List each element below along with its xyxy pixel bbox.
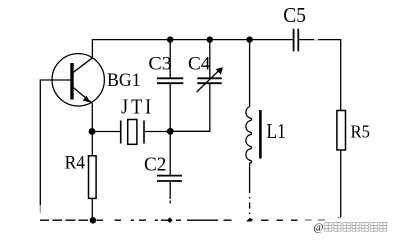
capacitor C5 [294, 29, 299, 52]
wire top rail right of C5 down to R5 [299, 40, 341, 111]
junction node crystal/C3/C4/C2 [167, 128, 174, 135]
wire node down to C2 [169, 132, 171, 176]
wire junction to crystal [92, 131, 120, 133]
resistor R5 [337, 111, 346, 151]
capacitor C3 [157, 78, 183, 83]
wire C4 branch from top rail [209, 40, 211, 78]
svg-text:R4: R4 [65, 152, 86, 173]
junction node at C3 branch [167, 36, 173, 42]
junction node emitter/R4/crystal [89, 128, 96, 135]
resistor R4 [89, 156, 97, 199]
chassis line faint right end [305, 219, 325, 221]
svg-text:C5: C5 [283, 3, 306, 27]
svg-text:BG1: BG1 [107, 70, 141, 91]
wire collector lead to top rail [91, 40, 93, 58]
svg-text:@: @ [314, 222, 324, 234]
transistor BG1 [52, 54, 104, 106]
wire C3 branch from top rail [169, 40, 171, 78]
wire emitter lead down [91, 103, 93, 131]
wire R5 bottom lead [340, 150, 342, 217]
wire C2 bottom lead [169, 181, 171, 199]
svg-text:R5: R5 [351, 122, 371, 142]
crystal JTI [121, 120, 144, 145]
wire L1 bottom lead [249, 163, 251, 187]
junction node at L1 branch [246, 36, 252, 42]
svg-text:C3: C3 [148, 55, 171, 75]
svg-text:C2: C2 [144, 153, 166, 175]
junction node R4 at chassis [90, 217, 97, 224]
svg-text:JTI: JTI [121, 94, 154, 118]
wire base lead and left rail [40, 80, 70, 205]
inductor L1 core bar [259, 110, 262, 159]
wire R4 top lead [91, 132, 93, 156]
svg-text:L1: L1 [267, 119, 286, 143]
wire L1 dash-dot lead to chassis [249, 187, 251, 219]
wire L1 branch from top rail [249, 40, 251, 107]
wire C4 bottom to node [170, 84, 210, 132]
inductor L1 coil [246, 107, 252, 163]
capacitor C4 (variable) [197, 67, 223, 92]
svg-text:C4: C4 [188, 55, 210, 75]
wire R4 bottom lead [91, 198, 93, 220]
chassis dash-dot ground line [40, 219, 298, 221]
wire C2 dashed stub [169, 201, 171, 204]
wire top rail faint artifact segment [314, 39, 318, 41]
junction node C2 at chassis [167, 217, 173, 223]
junction node L1 at chassis [246, 218, 253, 221]
wire crystal to node [145, 131, 171, 133]
capacitor C2 [157, 176, 182, 181]
watermark [314, 222, 387, 234]
wire C3 to node [169, 84, 171, 132]
junction node at C4 branch [207, 36, 213, 42]
wire top rail [92, 39, 293, 41]
